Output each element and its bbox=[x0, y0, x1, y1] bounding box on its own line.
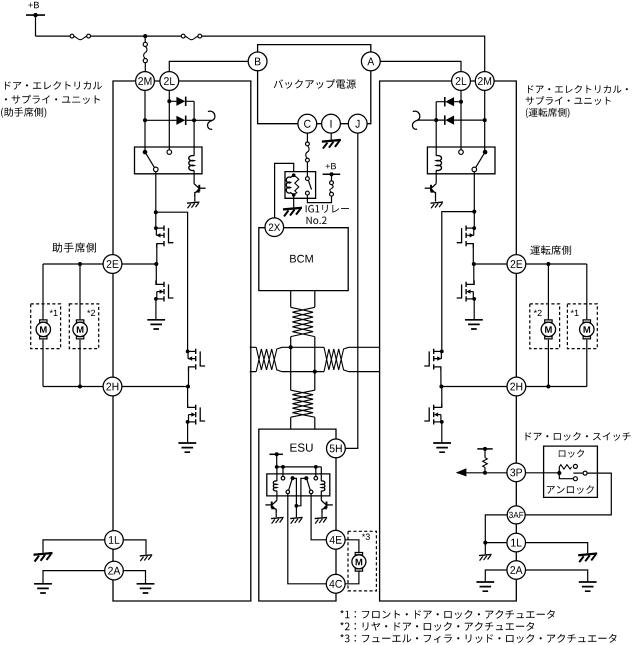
wire diode D2 row bbox=[145, 119, 212, 121]
node IG1 coil top bbox=[292, 173, 296, 177]
wire ESU coil right to transistor bbox=[320, 491, 322, 501]
wire diode D1 row bbox=[169, 100, 194, 102]
MOSFET M1 upper (col1) bbox=[163, 226, 165, 247]
connector C bbox=[298, 114, 317, 133]
node rail tap2 bbox=[314, 465, 318, 469]
relay switch arm bbox=[146, 154, 154, 168]
wire IG1 switch to +B tap bbox=[307, 174, 331, 202]
wire 2E to motor 1 driver bbox=[586, 264, 588, 319]
connector 3P bbox=[507, 463, 526, 482]
wire D3 output to coil bbox=[435, 102, 437, 156]
wire D1 output to coil bbox=[193, 101, 195, 156]
node MOSFET branch junction bbox=[154, 210, 158, 214]
label BCM bbox=[290, 255, 313, 263]
ESU box bbox=[259, 429, 336, 601]
wire unlock branch bbox=[559, 473, 573, 479]
arrow to other circuit bbox=[456, 468, 467, 476]
motor M rear door lock actuator *2 bbox=[76, 320, 83, 339]
node rail left bbox=[275, 465, 279, 469]
fuse F1 (inline connectors) bbox=[70, 34, 74, 38]
wire 2A left to ground bbox=[43, 571, 105, 584]
pull-up resistor bbox=[483, 458, 488, 468]
wire horizontal pair upper bbox=[250, 346, 380, 348]
backup power supply box bbox=[258, 45, 371, 124]
motor M front door lock actuator *1 driver bbox=[583, 320, 590, 339]
ground Q4 bbox=[431, 202, 444, 203]
node D4 to coil line bbox=[434, 118, 438, 122]
label IG1 relay No.2 bbox=[306, 205, 349, 213]
MOSFET M2 lower (col1) bbox=[163, 282, 165, 302]
ground MOSFET col1 bbox=[147, 320, 165, 329]
wire 3P row with resistor bbox=[457, 472, 507, 474]
twisted pair left twist bbox=[256, 347, 282, 370]
wire 2H line driver bbox=[441, 386, 587, 388]
ground 2A right (earth) bbox=[137, 584, 155, 593]
wire motor2 to 2H bbox=[79, 340, 81, 387]
relay box driver unit bbox=[427, 147, 495, 174]
relay contact NC driver bbox=[459, 150, 464, 155]
connector 2A passenger bbox=[105, 561, 124, 580]
relay contact NC (from 2L) bbox=[167, 150, 172, 155]
ESU power bar bbox=[270, 453, 283, 455]
wire 2H to M8 lower driver bbox=[441, 387, 443, 408]
node diode D1 anode bbox=[167, 99, 171, 103]
twisted pair BCM upper twist bbox=[291, 307, 313, 336]
node 2E motor branch bbox=[78, 262, 82, 266]
transistor Q2 ESU left bbox=[272, 500, 277, 504]
relay coil passenger bbox=[189, 156, 194, 171]
diode D1 bbox=[176, 97, 185, 106]
dashed box actuator *2 bbox=[69, 304, 98, 349]
ground ESU center bbox=[290, 517, 303, 518]
node 2E MOSFET junction driver bbox=[472, 262, 476, 266]
+B tap terminal bbox=[323, 173, 341, 175]
wire IG1 coil feed to 2X bbox=[275, 163, 294, 217]
ground ESU left bbox=[271, 517, 284, 518]
wire ESU NO right to 4E bbox=[311, 494, 326, 540]
relay contact common (from 2M) bbox=[143, 150, 148, 155]
connector J bbox=[348, 114, 367, 133]
IG1 relay coil with parallel resistor bbox=[286, 175, 293, 195]
connector 2X bbox=[265, 218, 284, 237]
wire ESU commons U-link bbox=[293, 478, 307, 505]
inline connector pair on 2M feed bbox=[143, 42, 147, 46]
ESU relay common right bbox=[304, 476, 308, 480]
relay contact common driver bbox=[483, 150, 488, 155]
dashed box actuator *3 bbox=[348, 531, 376, 591]
contact pole bbox=[583, 471, 587, 475]
wire M8 to ground bbox=[441, 422, 443, 443]
label door lock switch bbox=[526, 432, 631, 441]
ESU relay contact NO left bbox=[286, 490, 290, 494]
ESU relay coil left bbox=[273, 481, 277, 491]
connector 3AF bbox=[507, 506, 525, 524]
wire 2L to relay contact bbox=[168, 90, 170, 149]
ground 1L right (chassis) bbox=[140, 555, 153, 556]
dashed box actuator *1 bbox=[31, 304, 61, 349]
contact unlock bbox=[573, 477, 577, 481]
MOSFET M3 upper (col2) bbox=[195, 349, 197, 370]
wire branch to column 2 driver bbox=[442, 212, 475, 352]
wire M7 source to 2H line driver bbox=[440, 367, 442, 387]
door lock switch box bbox=[544, 446, 598, 497]
connector 2L passenger bbox=[160, 72, 179, 91]
ground ESU right bbox=[315, 517, 328, 518]
wire M3 source to 2H line bbox=[188, 367, 190, 387]
node resistor bottom bbox=[483, 471, 487, 475]
wire M6 to ground bbox=[473, 299, 475, 320]
label *2 driver bbox=[534, 310, 542, 316]
wire M5 source to 2E line driver bbox=[472, 244, 474, 264]
label lock bbox=[559, 449, 584, 457]
transistor Q4 relay driver unit bbox=[432, 184, 437, 188]
ground Q1 bbox=[187, 202, 200, 203]
label *1 bbox=[50, 310, 58, 316]
ESU relay common left bbox=[291, 476, 295, 480]
wire junction to ground bbox=[484, 543, 486, 555]
label backup power bbox=[274, 79, 356, 88]
wire 2H to M4 lower bbox=[187, 387, 189, 408]
connector A bbox=[361, 52, 380, 71]
ESU relay box bbox=[267, 474, 330, 496]
wire 2E branch to motor 2 bbox=[79, 264, 81, 319]
wire 2A right driver bbox=[526, 570, 588, 582]
twisted pair right twist bbox=[324, 347, 349, 370]
fuse F2 (inline connectors) bbox=[181, 34, 185, 38]
wire 2E branch to motor 2 driver bbox=[547, 264, 549, 319]
node 3AF-1L junction bbox=[483, 541, 487, 545]
node D2 to coil line bbox=[192, 118, 196, 122]
ESU relay arm right bbox=[307, 480, 310, 490]
wire motor1 to 2H bbox=[42, 340, 44, 387]
node upper pair junction bbox=[289, 345, 293, 349]
node 2E motor branch driver bbox=[546, 262, 550, 266]
contact lock bbox=[573, 464, 577, 468]
diode D2 bbox=[176, 116, 185, 125]
diode D3 bbox=[445, 97, 454, 106]
ground MOSFET col1 driver bbox=[465, 320, 483, 329]
motor M front door lock actuator *1 bbox=[40, 320, 47, 339]
wire 3AF to 1L junction bbox=[485, 515, 507, 543]
ESU relay contact NC left bbox=[281, 476, 285, 480]
node IG1 coil bottom bbox=[292, 193, 296, 197]
node 2H MOSFET junction driver bbox=[439, 385, 443, 389]
ground 2A left driver (earth) bbox=[476, 582, 494, 591]
inline connector pair on +B tap bbox=[330, 181, 334, 185]
wire M4 to ground bbox=[187, 422, 189, 443]
connector 2E driver bbox=[507, 255, 526, 274]
node rail tap1 bbox=[281, 465, 285, 469]
break squiggle driver side bbox=[412, 111, 419, 129]
wire ESU coil left to transistor bbox=[276, 491, 278, 501]
ground 2A right driver (earth) bbox=[579, 582, 597, 591]
wire Q2 to ground bbox=[275, 514, 277, 517]
wire 2L driver to relay contact bbox=[460, 90, 462, 149]
node 2H motor branch bbox=[78, 385, 82, 389]
node 2E MOSFET junction bbox=[154, 262, 158, 266]
wire horizontal pair lower bbox=[250, 371, 380, 373]
wire relay coil to transistor driver bbox=[435, 170, 437, 183]
wire 2E to M6 lower driver bbox=[473, 264, 475, 284]
relay contact NO driver bbox=[472, 167, 477, 172]
ground 2A left (earth) bbox=[34, 584, 52, 593]
wire branch to column 2 bbox=[156, 212, 188, 351]
transistor Q3 ESU right bbox=[321, 500, 326, 504]
wire 2M driver to relay common bbox=[484, 90, 486, 150]
label *3 bbox=[362, 534, 370, 540]
inline connector pair on C drop bbox=[306, 142, 310, 146]
connector 2L driver bbox=[452, 72, 471, 91]
pull-up bar terminal bbox=[477, 448, 492, 450]
connector 2E passenger bbox=[103, 255, 122, 274]
wire 2H line bbox=[43, 386, 189, 388]
MOSFET M8 lower (col2 driver) bbox=[433, 405, 435, 425]
wire to MOSFET column 1 bbox=[155, 212, 157, 228]
wire IG1 coil to ground bbox=[293, 195, 295, 208]
node lower pair junction bbox=[313, 370, 317, 374]
IG1 relay switch bbox=[306, 177, 310, 181]
node diode D3 anode bbox=[459, 100, 463, 104]
break squiggle to other circuit bbox=[208, 111, 215, 129]
wire 2A right to ground bbox=[123, 571, 145, 584]
wire 1L right to ground bbox=[123, 540, 146, 555]
wire +B rail bbox=[36, 15, 485, 72]
resistor in lock branch bbox=[559, 465, 571, 469]
door electrical supply unit (driver) box bbox=[380, 81, 517, 601]
wire A to 2L driver bbox=[380, 61, 461, 71]
label door electrical supply unit passenger side bbox=[5, 81, 102, 90]
ESU relay arm left bbox=[289, 480, 292, 490]
wire M2 to ground bbox=[155, 299, 157, 320]
node MOSFET branch junction driver bbox=[472, 210, 476, 214]
wire 2E to motor 1 bbox=[42, 264, 44, 319]
wire diode D4 row bbox=[417, 119, 485, 121]
MOSFET M7 upper (col2 driver) bbox=[433, 349, 435, 370]
wire 2E line bbox=[43, 263, 157, 265]
motor M rear door lock actuator *2 driver bbox=[545, 320, 552, 339]
door electrical supply unit (passenger) box bbox=[113, 81, 251, 601]
relay box passenger unit bbox=[135, 147, 203, 174]
ground MOSFET col2 driver bbox=[433, 443, 451, 452]
diode D4 bbox=[445, 116, 454, 125]
wire relay NO down to junction bbox=[155, 172, 157, 213]
connector 5H bbox=[327, 439, 346, 458]
wire twisted pair into ESU bbox=[291, 417, 315, 429]
connector 4C bbox=[326, 574, 345, 593]
relay coil driver bbox=[436, 156, 441, 171]
wire twisted pair from BCM bbox=[291, 291, 315, 391]
wire 2A left driver bbox=[485, 570, 507, 582]
wire lock branch bbox=[558, 467, 560, 473]
wire fuel lid motor to 4C bbox=[345, 570, 359, 583]
IG1 relay No.2 box bbox=[285, 172, 316, 199]
wire motor2 to 2H driver bbox=[547, 340, 549, 387]
wire to MOSFET column 1 driver bbox=[473, 212, 475, 229]
node switch common bbox=[557, 471, 561, 475]
wire U-link to ground bbox=[295, 506, 297, 517]
label driver side bbox=[530, 245, 571, 255]
wire 2E to M2 lower bbox=[155, 264, 157, 284]
wire I to ground bbox=[330, 133, 332, 140]
ground 1L left (chassis) bbox=[34, 553, 53, 555]
wire 2E line driver bbox=[473, 263, 587, 265]
dashed box actuator *2 driver bbox=[530, 304, 560, 349]
wire Q1 emitter to ground bbox=[194, 197, 196, 201]
wire motor1 to 2H driver bbox=[586, 340, 588, 387]
ESU relay contact NO right bbox=[309, 490, 313, 494]
wire relay coil to transistor bbox=[193, 170, 195, 183]
wire 4E to fuel lid motor bbox=[345, 540, 359, 553]
wire 2M to relay common bbox=[144, 90, 146, 150]
wire diode D3 row bbox=[436, 101, 461, 103]
wire C drop bbox=[306, 133, 308, 177]
note *1 front door lock actuator bbox=[340, 610, 555, 619]
connector 1L passenger bbox=[105, 531, 124, 550]
switch pole arm bbox=[573, 472, 583, 474]
MOSFET M6 lower (col1 driver) bbox=[465, 282, 467, 302]
+B battery terminal bbox=[26, 14, 45, 16]
ESU relay coil right bbox=[321, 481, 325, 491]
transistor Q1 relay driver bbox=[194, 184, 199, 188]
wire 2L to B bbox=[169, 61, 248, 71]
wire 3P to switch common bbox=[526, 472, 560, 474]
connector 2A driver bbox=[507, 561, 526, 580]
wire pole to 3AF bbox=[526, 473, 612, 515]
wire 1L right driver bbox=[526, 543, 588, 554]
relay contact NO bbox=[154, 167, 159, 172]
wire 1L left to ground bbox=[43, 540, 105, 553]
ground MOSFET col2 bbox=[178, 443, 196, 452]
label unlock bbox=[547, 485, 594, 494]
connector 4E bbox=[326, 530, 345, 549]
connector 2H passenger bbox=[103, 377, 122, 396]
node U-link ground bbox=[295, 504, 299, 508]
ESU relay contact NC right bbox=[314, 476, 318, 480]
note *3 fuel filler lid lock actuator bbox=[340, 634, 616, 643]
connector B bbox=[248, 52, 267, 71]
wire ESU NO left to 4C bbox=[288, 494, 327, 584]
label *1 driver bbox=[571, 310, 579, 316]
wire Q4 emitter to ground bbox=[435, 197, 437, 201]
label ESU bbox=[290, 443, 312, 451]
label *2 bbox=[87, 310, 95, 316]
wire 1L left driver bbox=[485, 542, 507, 544]
node diode D4 from 2M driver bbox=[483, 118, 487, 122]
MOSFET M5 upper (col1 driver) bbox=[465, 226, 467, 247]
connector I bbox=[322, 114, 341, 133]
connector 1L driver bbox=[507, 533, 526, 552]
wire Q3 to ground bbox=[321, 514, 323, 517]
connector 2M passenger bbox=[136, 72, 155, 91]
wire rail to connector 2M bbox=[144, 36, 146, 72]
twisted pair lower twist bbox=[291, 390, 313, 417]
ground below I bbox=[322, 140, 341, 142]
note *2 rear door lock actuator bbox=[340, 622, 534, 631]
node diode D2 from 2M bbox=[143, 118, 147, 122]
connector 2H driver bbox=[507, 377, 526, 396]
node 2H MOSFET junction bbox=[186, 385, 190, 389]
wire J down to 5H bbox=[345, 133, 357, 448]
ground 1L right driver (chassis) bbox=[578, 554, 597, 556]
motor M fuel filler lid lock actuator *3 bbox=[355, 553, 362, 572]
BCM box bbox=[259, 228, 348, 291]
junction rail to 2M drop bbox=[143, 34, 147, 38]
label door electrical supply unit driver side bbox=[528, 85, 628, 93]
ground 1L left driver (chassis) bbox=[479, 554, 492, 555]
connector 2M driver bbox=[475, 72, 494, 91]
wire relay NO down to junction driver bbox=[473, 172, 475, 212]
wire M1 source to 2E line bbox=[156, 244, 158, 264]
wire ESU power rail bbox=[277, 454, 322, 481]
relay switch arm driver bbox=[476, 154, 484, 168]
label passenger side bbox=[52, 243, 96, 253]
node 2H motor branch driver bbox=[546, 385, 550, 389]
dashed box actuator *1 driver bbox=[567, 304, 597, 349]
ground IG1 relay bbox=[283, 208, 302, 210]
MOSFET M4 lower (col2) bbox=[195, 405, 197, 425]
